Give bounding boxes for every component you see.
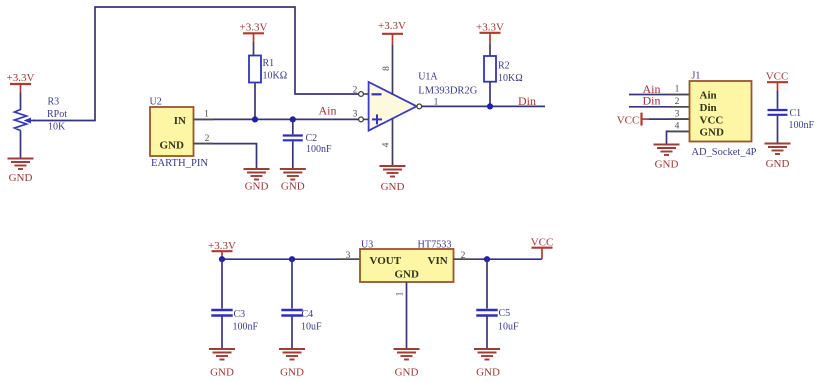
svg-text:100nF: 100nF — [233, 322, 259, 333]
wire +3.3V to R1 — [253, 42, 255, 56]
svg-text:VCC: VCC — [700, 114, 724, 126]
svg-text:LM393DR2G: LM393DR2G — [418, 85, 477, 96]
pin end circle U1A output pin 1 — [417, 104, 422, 109]
wire C4 to GND — [291, 317, 293, 349]
svg-text:VCC: VCC — [531, 236, 554, 248]
svg-text:VIN: VIN — [428, 255, 448, 267]
svg-text:R2: R2 — [498, 61, 510, 72]
ground (R3) — [8, 159, 34, 185]
svg-text:RPot: RPot — [47, 109, 67, 120]
svg-text:3: 3 — [675, 109, 680, 119]
designator U1A — [418, 72, 477, 97]
svg-text:VCC: VCC — [617, 114, 640, 126]
svg-text:1: 1 — [675, 85, 680, 95]
wire U3 GND pin to ground — [406, 282, 408, 349]
pin 8 wire (U1A) — [392, 45, 394, 95]
label R3 RPot 10K — [47, 97, 67, 133]
svg-text:2: 2 — [205, 134, 210, 144]
pin end circle U1A pin 2 — [359, 92, 369, 97]
label C4 10uF — [301, 309, 322, 333]
svg-text:C5: C5 — [499, 308, 511, 319]
capacitor C3 — [211, 310, 232, 316]
wire C5 branch — [486, 259, 488, 308]
ground (U3) — [394, 349, 420, 379]
svg-text:10KΩ: 10KΩ — [498, 73, 523, 84]
svg-text:1: 1 — [204, 110, 209, 120]
ground (C1) — [765, 144, 791, 171]
label R1 10KOhm — [263, 58, 288, 82]
wire R2 to output net — [489, 82, 491, 107]
svg-text:GND: GND — [281, 181, 305, 193]
wire J1 pin 4 to GND — [667, 131, 690, 143]
svg-text:VOUT: VOUT — [370, 255, 402, 267]
pin stub J1 pin 2 — [670, 106, 690, 108]
svg-text:10K: 10K — [48, 122, 66, 133]
junction (R2 / Din) — [487, 103, 493, 109]
label C2 100nF — [306, 133, 333, 155]
svg-text:2: 2 — [675, 97, 680, 107]
label C5 10uF — [498, 308, 519, 333]
wire C3 to GND — [221, 317, 223, 349]
svg-text:GND: GND — [395, 268, 420, 280]
svg-text:Din: Din — [643, 94, 661, 108]
wire U2 pin1 to op-amp pin 3 (net Ain) — [194, 118, 359, 120]
junction (R1 / Ain) — [252, 116, 258, 122]
pin stub J1 pin 1 — [670, 94, 690, 96]
power VCC (bottom) — [531, 236, 554, 259]
svg-text:GND: GND — [655, 159, 679, 171]
wire C4 branch — [291, 259, 293, 308]
power +3.3V (R1) — [240, 22, 268, 43]
svg-text:3: 3 — [353, 109, 358, 119]
wire VCC to C1 — [777, 91, 779, 109]
svg-text:R1: R1 — [263, 58, 275, 69]
svg-text:GND: GND — [245, 181, 269, 193]
svg-text:+3.3V: +3.3V — [7, 72, 35, 84]
svg-text:2: 2 — [461, 251, 466, 261]
svg-text:C4: C4 — [302, 309, 314, 320]
svg-text:GND: GND — [395, 367, 419, 379]
junction (C2 / Ain) — [290, 116, 296, 122]
svg-text:GND: GND — [700, 127, 725, 139]
ground (C5) — [474, 349, 500, 379]
regulator U3 body — [360, 249, 454, 282]
junction (C5 / VIN) — [484, 256, 490, 262]
pin stub J1 pin 4 — [670, 130, 690, 132]
ground (C4) — [279, 349, 305, 379]
pin stub U3 pin 3 — [340, 258, 360, 260]
svg-text:GND: GND — [9, 172, 33, 184]
wire R3 wiper to op-amp pin 2 (top loop) — [33, 7, 359, 121]
svg-text:10uF: 10uF — [301, 322, 322, 333]
wire +3.3V to R2 — [489, 44, 491, 56]
svg-text:GND: GND — [210, 367, 234, 379]
svg-text:Ain: Ain — [319, 104, 337, 118]
power +3.3V (U1A pin 8) — [378, 20, 406, 45]
capacitor C5 — [476, 310, 497, 316]
svg-text:EARTH_PIN: EARTH_PIN — [151, 158, 208, 169]
op-amp U1A — [369, 82, 417, 131]
ground (U1A pin 4) — [380, 166, 406, 193]
pin end circle U1A pin 3 — [359, 117, 369, 122]
connector J1 body — [690, 81, 752, 142]
wire C2 to GND — [292, 142, 294, 169]
svg-text:Din: Din — [700, 102, 717, 114]
capacitor C2 — [283, 136, 303, 141]
wire U2 pin2 to GND — [194, 144, 257, 168]
wire +3.3V rail to U3 VOUT — [222, 258, 360, 260]
wire +3.3V to R3 — [20, 93, 22, 111]
wire node Ain to C2 — [292, 119, 294, 134]
svg-text:GND: GND — [766, 158, 790, 170]
svg-text:GND: GND — [476, 367, 500, 379]
wire R1 to node Ain — [254, 83, 256, 120]
ground (C3) — [209, 349, 235, 379]
pin stub U2 pin2 — [194, 143, 214, 145]
power VCC (C1) — [766, 71, 789, 92]
svg-text:4: 4 — [382, 142, 392, 147]
power +3.3V (R3) — [7, 72, 35, 93]
power +3.3V (R2) — [476, 22, 504, 45]
svg-text:J1: J1 — [692, 71, 701, 82]
svg-text:Ain: Ain — [700, 90, 717, 102]
label R2 10KOhm — [498, 61, 523, 85]
svg-text:Din: Din — [518, 94, 536, 108]
svg-text:GND: GND — [160, 139, 185, 151]
potentiometer R3 — [15, 110, 36, 131]
svg-text:VCC: VCC — [766, 71, 789, 83]
wire J1 pin 3 — [649, 118, 690, 120]
svg-text:3: 3 — [346, 251, 351, 261]
component U2 body — [150, 107, 194, 156]
resistor R2 — [484, 56, 496, 82]
resistor R1 — [249, 56, 261, 83]
svg-text:U2: U2 — [150, 97, 162, 108]
svg-text:C3: C3 — [234, 309, 246, 320]
ground (C2) — [280, 169, 306, 193]
pin stub U2 pin1 — [194, 118, 214, 120]
svg-text:8: 8 — [382, 66, 392, 71]
svg-text:C1: C1 — [790, 108, 802, 119]
svg-text:C2: C2 — [306, 133, 318, 144]
svg-text:1: 1 — [396, 291, 406, 296]
power VCC (J1 pin 3) — [617, 113, 649, 127]
junction (C4 / rail) — [289, 256, 295, 262]
wire U1A output to Din — [422, 105, 545, 107]
svg-text:U1A: U1A — [418, 72, 438, 83]
wire U3 VIN to VCC — [454, 258, 543, 260]
junction (C3 / rail) — [219, 256, 225, 262]
svg-text:10uF: 10uF — [498, 322, 519, 333]
svg-text:100nF: 100nF — [306, 144, 332, 155]
capacitor C4 — [281, 310, 302, 316]
svg-text:R3: R3 — [48, 97, 60, 108]
power +3.3V (bottom rail) — [208, 240, 236, 259]
svg-text:+3.3V: +3.3V — [240, 22, 268, 34]
pin stub J1 pin 3 — [670, 118, 690, 120]
svg-text:2: 2 — [353, 85, 358, 95]
wire C3 branch — [221, 259, 223, 308]
svg-text:100nF: 100nF — [789, 120, 815, 131]
wire J1 pin 2 — [629, 106, 690, 108]
svg-text:4: 4 — [675, 122, 680, 132]
svg-text:GND: GND — [381, 181, 405, 193]
capacitor C1 — [768, 110, 788, 115]
svg-text:10KΩ: 10KΩ — [263, 71, 288, 82]
wire R3 to GND — [20, 131, 22, 159]
pin 4 wire (U1A) — [392, 118, 394, 166]
wire C5 to GND — [486, 317, 488, 349]
label C1 100nF — [789, 108, 815, 131]
pin stub U3 pin 2 — [454, 258, 474, 260]
ground (U2 pin2) — [244, 169, 270, 193]
svg-text:AD_Socket_4P: AD_Socket_4P — [692, 147, 757, 158]
svg-text:GND: GND — [280, 367, 304, 379]
label C3 100nF — [233, 309, 259, 333]
wire J1 pin 1 — [629, 94, 690, 96]
ground (J1 pin 4) — [654, 145, 680, 171]
svg-text:+3.3V: +3.3V — [378, 20, 406, 32]
svg-text:IN: IN — [174, 115, 186, 127]
wire C1 to GND — [777, 116, 779, 143]
